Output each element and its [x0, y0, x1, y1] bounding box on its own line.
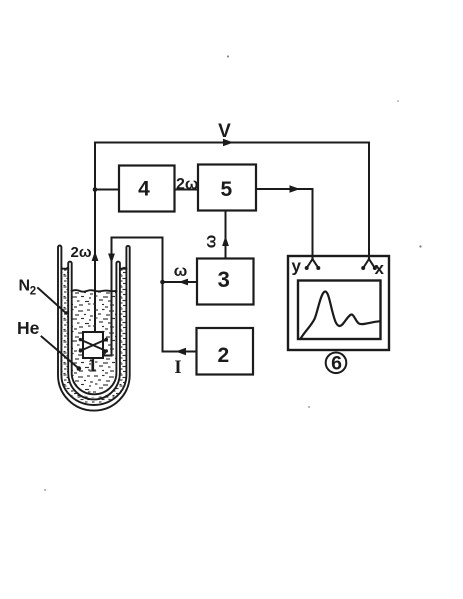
svg-text:I: I — [174, 358, 181, 378]
svg-text:3: 3 — [218, 267, 230, 292]
svg-text:2ω: 2ω — [176, 176, 198, 193]
dewar outer wall — [58, 246, 130, 411]
svg-text:N: N — [19, 278, 31, 295]
svg-text:ω: ω — [203, 235, 220, 249]
svg-text:5: 5 — [220, 178, 232, 201]
arrow 2w (pointing up, on left vertical wire) — [92, 251, 99, 261]
wire bus: vertical line, top run to dewar, down into cell — [104, 238, 163, 356]
arrow on V line (pointing right) — [223, 139, 234, 147]
box 5 — [198, 165, 256, 211]
node junction at box4 input — [93, 187, 98, 192]
jacket N2 level line left — [61, 268, 68, 270]
inner vessel liquid He (stipple fill) — [72, 291, 117, 394]
wire box5 output to y-input — [256, 189, 313, 258]
dewar jacket liquid N2 (stipple band) — [65, 269, 123, 400]
spectrum curve on screen — [301, 291, 381, 338]
svg-text:2ω: 2ω — [71, 244, 92, 261]
arrow on box5 output (pointing right) — [290, 185, 301, 193]
svg-text:y: y — [292, 257, 302, 276]
wire box4 to box5 — [175, 189, 199, 191]
leader line N2 — [38, 288, 67, 314]
wire junction to box 4 — [95, 189, 119, 191]
box 3 — [197, 259, 254, 305]
scan specks — [44, 55, 422, 491]
box 6 screen — [298, 281, 381, 340]
svg-text:1: 1 — [88, 356, 98, 377]
box 2 — [197, 328, 254, 375]
sample cell bowtie — [80, 339, 106, 351]
svg-text:2: 2 — [218, 344, 230, 367]
wire box2 to bus — [163, 351, 197, 353]
jacket N2 level line right — [120, 268, 127, 270]
svg-text:ω: ω — [174, 263, 188, 280]
arrow on box3 output (pointing left) — [179, 279, 189, 286]
node at cell bottom right — [102, 351, 106, 355]
leader line He — [42, 337, 79, 369]
wire box3 to box5 — [225, 211, 227, 259]
y input terminal of box 6 — [307, 259, 318, 268]
box 6 recorder outer frame — [288, 256, 389, 350]
arrow on box3-box5 wire (pointing up) — [222, 236, 229, 246]
circle label 6 — [326, 353, 347, 374]
svg-text:V: V — [218, 121, 231, 142]
wire V line: left vertical from cell, top horizontal, right vertical to x-input — [95, 143, 369, 332]
node junction on bus at box3 level — [160, 280, 165, 285]
liquid He level line (wavy) — [72, 290, 117, 292]
svg-text:He: He — [17, 318, 40, 338]
svg-text:2: 2 — [30, 286, 36, 298]
dewar inner wall — [68, 262, 120, 400]
sample cell 1 (rect) — [83, 332, 103, 358]
svg-text:6: 6 — [331, 353, 342, 375]
arrow into cell (pointing down) — [108, 254, 115, 264]
x input terminal of box 6 — [364, 259, 375, 268]
wire box3 to bus junction — [163, 281, 197, 283]
arrow on box2 output (pointing left) — [176, 348, 187, 356]
svg-text:x: x — [375, 259, 385, 278]
box 4 — [119, 166, 175, 212]
svg-text:4: 4 — [138, 178, 150, 201]
